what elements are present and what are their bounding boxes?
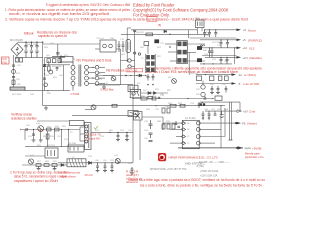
capacitor C1 [24, 42, 27, 57]
svg-text:+5V Pilexinna and 5 Sore: +5V Pilexinna and 5 Sore [76, 59, 112, 63]
wire: rail to +5VSB arrow [205, 110, 237, 112]
resistor R61 [44, 164, 49, 167]
T1 secondary winding [85, 65, 89, 85]
wire: aux vertical x63.5 [63, 65, 65, 91]
wire: T3 right rail y132.4 [91, 131, 133, 133]
diode D4 on rail [164, 30, 166, 32]
capacitor C24 [208, 48, 211, 58]
thermistor TH1 [44, 83, 48, 87]
capacitor C13 [152, 74, 155, 81]
svg-text:SBL2040: SBL2040 [205, 72, 214, 74]
capacitor C7 (electrolytic) [126, 40, 131, 53]
svg-text:-5 (5W): -5 (5W) [196, 166, 204, 168]
diode D13 [89, 161, 92, 164]
labels noise middle section [96, 32, 172, 97]
wire: bottom to HV bus [25, 90, 48, 92]
IC box U8 [68, 145, 84, 152]
thermistor NTC1 [12, 70, 16, 74]
resistor R51 [55, 128, 60, 131]
wire: middle horizontal 85 [95, 84, 120, 86]
note: annotation FB line with box [106, 68, 143, 72]
wire: left pin leads [163, 123, 181, 143]
wire: output rail 2 [200, 39, 237, 41]
svg-text:NTC: NTC [16, 73, 21, 75]
capacitor stack C33 [149, 120, 153, 129]
resistor stack R41 [162, 124, 175, 129]
diode D15 dark mark [200, 103, 206, 105]
ground: mid [103, 85, 105, 87]
node dots aux [44, 69, 49, 91]
wire: vertical x231.5 pair [231, 102, 233, 140]
ground: c27 [216, 93, 220, 95]
svg-text:FB Prealtosa: FB Prealtosa [106, 69, 125, 73]
wire: T1 primary top feed [61, 55, 73, 62]
wire: rail -5V [196, 83, 232, 85]
svg-text:Milouk: Milouk [24, 32, 34, 36]
svg-text:FIO: FIO [3, 60, 7, 64]
wire: opto out right [141, 92, 168, 94]
diode D8 (dark) [197, 58, 202, 62]
green check mark 1 [94, 126, 98, 129]
ground: c63 [130, 173, 134, 175]
node dot T2 [169, 46, 170, 47]
svg-text:[5]: [5] [158, 23, 161, 27]
svg-text:E oggiorni di sentimentale ap: E oggiorni di sentimentale ap ferru ITAU… [46, 3, 130, 7]
C7 inner label marks [128, 42, 129, 50]
wire: vertical bus x127 [126, 28, 128, 62]
node dots T1 [92, 67, 93, 79]
resistor R36 [112, 104, 117, 107]
wire: T2 right leads [187, 44, 205, 61]
wire: x188 vertical top [187, 30, 189, 38]
ground: HV mid [44, 106, 48, 111]
resistor RA2 [53, 59, 56, 63]
small caps left of U1 [175, 121, 180, 127]
labels noise pwm section [141, 94, 229, 140]
capacitor C26 [211, 86, 214, 93]
pin circle top [134, 30, 136, 32]
wire: primary lower rail [45, 57, 66, 59]
svg-text:5vcos: 5vcos [248, 28, 256, 32]
svg-text:+5 5W +5V 5.23A: +5 5W +5V 5.23A [200, 170, 219, 173]
T2 winding right [183, 42, 187, 63]
wire: rail y115.3 [72, 114, 133, 116]
T2 winding left [177, 42, 181, 63]
wire: mid rail B [43, 105, 225, 107]
svg-text:los o esto a forte, dime su pe: los o esto a forte, dime su pedute o fio… [140, 183, 262, 187]
ground: standby 1 [32, 140, 36, 142]
wire: middle horizontal 75 [95, 75, 145, 77]
output arrow left (5VSB return) [236, 146, 261, 150]
bracket bottom of bus pair [229, 139, 233, 141]
transistor Q6 [201, 92, 205, 96]
wire: bridge bottom stub [16, 56, 18, 59]
capacitor C40 [202, 111, 205, 118]
wire: bridge top rail [17, 41, 43, 43]
diode D10 [154, 92, 157, 95]
ground: c61 [103, 171, 107, 173]
wire: standby rail y129.5 [20, 129, 80, 131]
wire: line filter vertical [13, 55, 15, 87]
node dots mid [125, 75, 137, 77]
svg-text:+: + [20, 128, 22, 132]
company logo [158, 153, 166, 161]
svg-text:C1: C1 [187, 143, 189, 145]
node dots L2 rail [97, 162, 113, 163]
wire: aux bottom rail [48, 90, 70, 92]
wire: aux rail y64.8 [45, 64, 71, 66]
svg-text:Cmb: Cmb [249, 110, 256, 114]
capacitor C12 [147, 74, 150, 81]
diode D7 (dark) [197, 46, 202, 50]
capacitor C43 polarized [220, 111, 224, 117]
wire: q7 rail [85, 109, 92, 111]
capacitor C50 [26, 128, 27, 131]
svg-text:ntilaba sa a fritte aga, mas o: ntilaba sa a fritte aga, mas o portada s… [128, 178, 265, 182]
svg-text:R37 C10: R37 C10 [127, 68, 138, 72]
wire: aux vertical 1 [44, 58, 46, 91]
node dots mid rails [132, 98, 221, 106]
wire: upper rail to switcher [43, 43, 100, 45]
svg-text:+5V: +5V [243, 109, 248, 113]
wire: U2 out to x120.5 [116, 48, 121, 50]
svg-text:R51 100: R51 100 [190, 73, 199, 75]
wire: vertical x221 [220, 106, 222, 148]
wire: T2 left leads [165, 44, 177, 61]
labels noise left section [12, 43, 69, 96]
IC box U9 [45, 148, 58, 158]
capacitor C9 [122, 41, 125, 52]
capacitor C62 [111, 163, 114, 171]
wire: top bus rail [127, 27, 131, 29]
choke L3 bumps [200, 45, 205, 46]
capacitor stack C34 [149, 133, 153, 138]
svg-text:capacitures i aprox so 25uH: capacitures i aprox so 25uH [14, 179, 59, 183]
svg-text:(PURPLE): (PURPLE) [248, 38, 262, 42]
wire: mid rail A [133, 98, 213, 100]
svg-text:V12: V12 [249, 46, 255, 50]
output arrow rail2 [237, 38, 263, 42]
transistor Q1 [52, 51, 65, 57]
wire: T2d top lead [147, 45, 149, 54]
svg-text:+12V 5.10A 1.5A: +12V 5.10A 1.5A [200, 174, 218, 177]
svg-text:-12: -12 [238, 73, 242, 77]
diode D12 [61, 164, 64, 167]
svg-text:BD1 RS205: BD1 RS205 [10, 39, 23, 42]
node dot [169, 34, 170, 35]
node dots rails [209, 29, 235, 58]
capacitor C25 [220, 57, 223, 64]
pin circle mid [134, 52, 136, 54]
resistor R26 [148, 96, 153, 99]
wire: x140 drop to bottom [139, 120, 141, 160]
diode D9 [148, 92, 151, 95]
resistor R10 [146, 33, 153, 36]
wire: vertical bus x134.7 [134, 30, 136, 93]
ground: c62 [110, 171, 114, 173]
svg-text:C7634: C7634 [71, 92, 80, 96]
resistor R62 [52, 164, 57, 167]
wire: pin stubs right [131, 61, 135, 67]
wire: rail3-4 link [202, 55, 237, 57]
capacitor C3 (filter electrolytic) [35, 42, 38, 57]
svg-text:SW1: SW1 [195, 18, 201, 21]
capacitor C22 [220, 40, 223, 48]
wire: vertical x225 [224, 108, 226, 137]
optocoupler U7 box [134, 112, 143, 121]
resistor RF1 [16, 58, 19, 63]
capacitor C29 [204, 96, 207, 99]
resistor R2 (large bar) [10, 87, 25, 90]
capacitor C53 [126, 132, 129, 139]
node dots on top rail [25, 42, 43, 43]
labels noise standby section [26, 123, 133, 165]
wire: bottom rail y165 [22, 164, 67, 166]
svg-text:HIPER PERFORMANCE EL. CO.,LTD: HIPER PERFORMANCE EL. CO.,LTD [169, 156, 218, 160]
capacitor C51 [32, 134, 35, 135]
startup box U4 [196, 20, 205, 28]
ground: c26 [210, 93, 214, 95]
labels rectifier caps [204, 35, 229, 63]
optocoupler U5 box [128, 85, 138, 91]
wire: x189 drop [188, 53, 190, 76]
resistor R5 [48, 66, 51, 71]
IC U2 box [100, 40, 116, 52]
capacitor CX1 [12, 65, 15, 66]
wire: T1 primary bottom to aux rail [72, 89, 74, 91]
wire: feed to T3 [37, 120, 70, 122]
wire: drop from rail to TL494 area [132, 93, 134, 106]
svg-text:signa: signa [245, 146, 252, 150]
svg-text:(Verde): (Verde) [247, 122, 257, 126]
capacitor C25b [226, 57, 229, 64]
wire: output rail 4 [205, 56, 237, 58]
T1 core [79, 65, 81, 87]
component box K1 [128, 111, 138, 117]
transistor Q11 [28, 159, 33, 164]
capacitor C30 [158, 97, 161, 99]
IC U1 body [182, 120, 199, 148]
U1 left pins (diamonds) [181, 122, 185, 145]
capacitor C20b [203, 30, 206, 37]
capacitor C2 (filter electrolytic) [30, 42, 33, 57]
resistor R33 [180, 104, 185, 107]
wire: right vertical x234.7 [234, 48, 236, 64]
T2 driver transformer winding right [151, 55, 155, 72]
resistor R32 [170, 104, 176, 107]
svg-text:R19 2W: R19 2W [136, 32, 144, 34]
svg-text:15 urti: 15 urti [84, 173, 93, 177]
T1 primary winding [71, 62, 75, 89]
output arrow rail4 [237, 56, 262, 60]
capacitor C41 [208, 111, 211, 118]
svg-text:+12: +12 [243, 46, 248, 50]
resistor RA1 [47, 59, 50, 63]
wire: vertical x229.5 [229, 102, 231, 140]
resistor R30 [141, 97, 147, 100]
wire: R5 drop [48, 61, 50, 67]
resistor R60 [36, 164, 41, 167]
ground: under R60 [37, 166, 41, 171]
svg-text:or (2011): or (2011) [244, 73, 256, 77]
wire: bottom rail y147.9 [178, 147, 243, 149]
svg-text:3 C10-Bar: 3 C10-Bar [100, 88, 114, 92]
wire: second top rail [121, 33, 209, 35]
output arrow PS-ON [235, 122, 257, 126]
diode D3 (dark) [154, 39, 159, 43]
capacitor C63 [131, 167, 134, 173]
wire: nested rail y102 [200, 101, 240, 103]
ground: c52 [116, 140, 120, 142]
transistor Q10 [38, 126, 44, 132]
svg-text:1. Porta porta atenzionedese:: 1. Porta porta atenzionedese: nosce ve o… [5, 8, 130, 12]
diode D1 [43, 65, 46, 67]
T3 standby transformer [85, 123, 92, 150]
wire: standby subrail y156 [25, 155, 45, 157]
svg-text:pipistrello o fio: pipistrello o fio [245, 155, 264, 159]
wire: rectifier rail 5 [200, 63, 232, 65]
capacitor C4 [43, 78, 46, 79]
node dot junction [138, 53, 140, 55]
wire: U2 left leads [95, 48, 100, 50]
connector pin P2 [128, 65, 131, 68]
wire: T1 secondary taps [88, 67, 105, 83]
svg-text:2. Verificare supas ve intende: 2. Verificare supas ve intende doccine 7… [5, 17, 248, 21]
svg-text:R07 330K: R07 330K [12, 94, 22, 96]
driver box U6 [130, 89, 141, 97]
node dots T3 rail [109, 132, 127, 133]
shield box above T3 [70, 121, 85, 126]
capacitor C61 [104, 163, 107, 171]
node dots [205, 74, 206, 75]
capacitor C52 [117, 132, 120, 139]
transistor Q8 [172, 79, 177, 84]
ground: under R62 [53, 166, 57, 171]
capacitor bank row1: C20 [208, 30, 211, 37]
output arrow rail3 [237, 46, 255, 50]
wire: vertical x240 [239, 102, 241, 111]
wire: caps bottom rail [23, 57, 43, 59]
ground symbols under caps [202, 118, 210, 120]
output arrow -12V [232, 73, 256, 77]
capacitor C27 [217, 86, 220, 93]
capacitor C21b [211, 48, 214, 58]
T2 frame lines [146, 54, 155, 73]
wire: U1 right pin leads [200, 123, 236, 143]
transistor Q7 [91, 105, 96, 110]
svg-text:SHTEST DATE: +5.0V 25V: SHTEST DATE: +5.0V 25V 7H 7HA [150, 168, 187, 171]
svg-text:capacito to quent-te: capacito to quent-te [38, 34, 67, 38]
svg-text:+3.3: +3.3 [243, 56, 249, 60]
resistor R31 [152, 97, 156, 100]
wire: u7 right long [142, 116, 163, 118]
wire: L2 rail y162.8 [58, 162, 133, 164]
bridge rectifier BD1 [11, 43, 23, 55]
T2 driver transformer winding left [146, 55, 150, 72]
svg-text:— data M5 - V5I —— VRM ——: — data M5 - V5I —— VRM —— [196, 161, 230, 164]
resistor row -12V rail: R20 [197, 76, 229, 81]
inductor L2 (hatched box) [67, 159, 86, 167]
output arrow +5VSB [237, 109, 256, 113]
capacitor C23 [226, 40, 229, 48]
wire: top right rail y38 [190, 37, 237, 39]
note: red highlight box on note2 [147, 17, 157, 22]
wire: output rail 1 [204, 29, 237, 31]
T2 frame [177, 41, 188, 64]
resistor R52 [46, 134, 49, 139]
capacitor C60 [96, 163, 99, 171]
note: red dot on Q10 [39, 130, 41, 132]
svg-text:U8 7805: U8 7805 [68, 143, 77, 145]
capacitor stack C35 [149, 141, 153, 142]
node dots standby rail [33, 129, 69, 130]
diode D6 [139, 74, 142, 77]
capacitor C42 [214, 111, 217, 115]
wire: drops from rail [25, 130, 69, 147]
transistor Q12 [115, 159, 120, 164]
resistor RF2 [20, 58, 23, 63]
transistor Q3 [111, 76, 116, 81]
svg-text:resistenze startlev: resistenze startlev [11, 117, 37, 121]
output arrow +5V rail1 [237, 28, 257, 32]
ground: c60 [96, 171, 100, 173]
connector J1 (AC line, red) [2, 57, 10, 64]
resistor stack R40 [162, 108, 170, 113]
wire: T3 left leads [80, 127, 85, 141]
wire: rail y84.6 [95, 84, 133, 86]
ground: standby 2 [39, 140, 43, 142]
capacitor C8 [118, 41, 121, 52]
svg-text:avoti, e ricciva so rigetti no: avoti, e ricciva so rigetti noi berla 2/… [9, 12, 109, 16]
T1 secondary outer taps [95, 66, 99, 86]
wire: Q1 top to rail [57, 44, 59, 51]
capacitor C28 [225, 86, 228, 93]
node dots rectifier extra [203, 29, 227, 64]
ground: c53 [125, 140, 129, 142]
component box R12 [144, 42, 149, 46]
wire: vertical x120.5 [120, 49, 122, 85]
svg-text:PS: PS [242, 122, 246, 126]
connector pin P1 [128, 59, 131, 62]
resistor RA3 [58, 59, 61, 63]
svg-text:o de uP 600: o de uP 600 [243, 82, 259, 86]
wire: standby rail y146.7 [25, 146, 85, 148]
U1 right pins (circles) [196, 121, 200, 145]
wire: q3 connections [103, 75, 114, 78]
wire: U4 pins down [198, 28, 203, 35]
svg-text:(Variable): (Variable) [249, 56, 262, 60]
capacitor CX2 [12, 77, 15, 78]
resistor R1 [12, 80, 15, 85]
junction dots under T2d [145, 75, 154, 85]
capacitor C21 [214, 30, 217, 37]
transistor Q5 [201, 85, 205, 89]
wire: main HV bus vertical [42, 42, 44, 105]
U1 internal text [187, 122, 190, 145]
wire: pins stub [121, 60, 128, 62]
capacitor C11 [102, 87, 106, 89]
wire: q5 stub [202, 81, 204, 85]
wire: rail -12V [196, 74, 232, 76]
thermistor TH2 [49, 70, 53, 74]
svg-text:C62 330: C62 330 [212, 42, 221, 44]
capacitor CA1 [56, 66, 59, 71]
small box top right [215, 96, 222, 100]
output arrow -5V [232, 82, 260, 86]
svg-text:U1 TL494: U1 TL494 [185, 117, 196, 120]
svg-text:+5VSB: +5VSB [252, 146, 261, 150]
snubber box U3 [60, 57, 73, 63]
